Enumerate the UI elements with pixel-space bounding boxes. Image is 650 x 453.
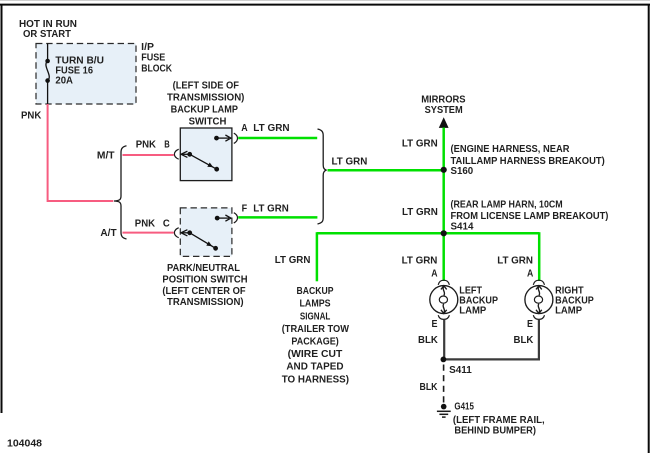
svg-text:A: A (527, 268, 533, 279)
svg-text:(WIRE CUT: (WIRE CUT (288, 349, 343, 360)
label LEFT BACKUP LAMP (459, 286, 498, 317)
arrow to mirrors system (439, 117, 449, 128)
svg-text:TO HARNESS): TO HARNESS) (282, 374, 349, 385)
connector pin B (174, 149, 178, 159)
svg-text:A: A (241, 123, 247, 134)
connector pin F (234, 213, 238, 223)
svg-text:TAILLAMP HARNESS BREAKOUT): TAILLAMP HARNESS BREAKOUT) (451, 156, 605, 167)
wire PNK from fuse to brace (48, 104, 114, 201)
svg-text:LT GRN: LT GRN (253, 123, 289, 134)
label switch title (167, 80, 244, 127)
ground G415 (437, 404, 451, 417)
label engine harness note (451, 144, 605, 167)
svg-text:LT GRN: LT GRN (497, 255, 533, 266)
svg-text:I/P: I/P (141, 42, 154, 53)
svg-text:BLK: BLK (514, 335, 535, 346)
svg-text:OR START: OR START (23, 29, 71, 40)
wire LT GRN right lamp drop (538, 232, 541, 281)
svg-text:C: C (163, 219, 170, 230)
svg-text:(LEFT SIDE OF: (LEFT SIDE OF (173, 80, 239, 91)
svg-text:E: E (432, 319, 438, 330)
wire LT GRN from A (238, 137, 317, 140)
wire LT GRN backup lamps signal drop (316, 232, 319, 281)
label F LT GRN (242, 203, 289, 214)
svg-text:BACKUP: BACKUP (297, 286, 334, 297)
switch contacts (M/T) (181, 135, 231, 172)
wire LT GRN left lamp drop (442, 233, 445, 281)
label PNK B (136, 139, 170, 150)
svg-text:LT GRN: LT GRN (332, 156, 368, 167)
svg-text:S411: S411 (449, 365, 472, 376)
wire PNK M/T (123, 154, 174, 156)
label TURN B/U FUSE 16 20A (55, 55, 104, 86)
svg-text:BACKUP LAMP: BACKUP LAMP (171, 104, 239, 115)
svg-text:LT GRN: LT GRN (253, 203, 288, 214)
svg-text:LAMPS: LAMPS (300, 299, 331, 310)
svg-text:PNK: PNK (21, 111, 42, 122)
label PNK C (135, 219, 170, 230)
svg-text:A: A (431, 268, 437, 279)
fuse TURN B/U FUSE 16 20A (45, 44, 50, 105)
svg-text:S160: S160 (451, 166, 474, 177)
svg-text:MIRRORS: MIRRORS (421, 95, 466, 106)
svg-text:TRANSMISSION): TRANSMISSION) (167, 92, 244, 103)
backup lamp switch box (180, 128, 232, 181)
connector pin C (174, 228, 178, 238)
wire LT GRN S414 horizontal (317, 232, 539, 235)
svg-text:AND TAPED: AND TAPED (286, 362, 343, 373)
svg-text:BEHIND BUMPER): BEHIND BUMPER) (454, 425, 536, 436)
svg-text:SWITCH: SWITCH (189, 116, 227, 127)
svg-text:BLOCK: BLOCK (141, 63, 172, 74)
splice S414 (441, 230, 447, 236)
label A LT GRN (241, 123, 289, 134)
svg-text:LT GRN: LT GRN (275, 255, 311, 266)
splice S160 (441, 167, 447, 173)
label backup lamps signal (282, 286, 350, 385)
label rear lamp harness note (451, 199, 609, 222)
connector left lamp pin A (438, 280, 449, 285)
svg-text:(LEFT FRAME RAIL,: (LEFT FRAME RAIL, (453, 415, 545, 426)
svg-text:B: B (164, 139, 170, 150)
svg-text:POSITION SWITCH: POSITION SWITCH (162, 274, 247, 285)
svg-text:LAMP: LAMP (555, 306, 582, 317)
connector right lamp pin A (533, 280, 544, 285)
svg-text:(REAR LAMP HARN, 10CM: (REAR LAMP HARN, 10CM (451, 199, 563, 210)
label HOT IN RUN OR START (19, 19, 77, 40)
svg-text:FROM LICENSE LAMP BREAKOUT): FROM LICENSE LAMP BREAKOUT) (451, 211, 609, 222)
svg-text:M/T: M/T (97, 151, 115, 162)
svg-text:FUSE: FUSE (141, 53, 165, 64)
svg-text:20A: 20A (55, 75, 73, 86)
wire BLK right lamp (444, 320, 539, 360)
wire LT GRN main vertical (442, 128, 445, 234)
svg-text:SIGNAL: SIGNAL (300, 311, 330, 322)
svg-text:104048: 104048 (7, 439, 42, 450)
connector pin A (234, 133, 238, 143)
wire LT GRN brace to S160 (328, 169, 444, 172)
svg-text:(TRAILER TOW: (TRAILER TOW (282, 324, 350, 335)
connector left lamp pin E (438, 315, 449, 319)
wire BLK left lamp (443, 320, 445, 360)
svg-text:F: F (242, 203, 248, 214)
wire PNK A/T (123, 232, 174, 234)
svg-text:BLK: BLK (418, 335, 439, 346)
label ground location (453, 415, 545, 436)
svg-text:LT GRN: LT GRN (402, 207, 438, 218)
connector right lamp pin E (533, 315, 544, 319)
svg-text:PNK: PNK (136, 139, 157, 150)
svg-text:A/T: A/T (100, 228, 116, 239)
brace M/T A/T split (114, 146, 127, 239)
svg-text:G415: G415 (454, 401, 474, 412)
svg-text:PARK/NEUTRAL: PARK/NEUTRAL (167, 263, 240, 274)
splice S411 (441, 357, 447, 363)
switch contacts (A/T) (181, 215, 231, 251)
svg-text:PACKAGE): PACKAGE) (291, 337, 338, 348)
right backup lamp (525, 286, 553, 314)
svg-text:E: E (527, 319, 533, 330)
I/P fuse block box (36, 44, 136, 105)
svg-text:LT GRN: LT GRN (402, 255, 438, 266)
wire LT GRN from F (238, 216, 317, 219)
label RIGHT BACKUP LAMP (555, 286, 594, 317)
wire BLK dashed to ground (443, 365, 445, 403)
svg-text:PNK: PNK (135, 219, 156, 230)
label I/P FUSE BLOCK (141, 42, 172, 74)
left backup lamp (430, 286, 458, 314)
park/neutral position switch box (180, 208, 232, 257)
svg-text:BLK: BLK (420, 382, 439, 393)
label park/neutral title (162, 263, 247, 308)
svg-text:S414: S414 (451, 222, 474, 233)
svg-text:(LEFT CENTER OF: (LEFT CENTER OF (162, 286, 245, 297)
svg-text:LAMP: LAMP (459, 306, 486, 317)
svg-text:(ENGINE HARNESS, NEAR: (ENGINE HARNESS, NEAR (451, 144, 571, 155)
svg-text:SYSTEM: SYSTEM (425, 105, 463, 116)
label MIRRORS SYSTEM (421, 95, 466, 116)
brace join A F (318, 129, 327, 224)
svg-text:TRANSMISSION): TRANSMISSION) (167, 297, 244, 308)
svg-text:LT GRN: LT GRN (402, 138, 438, 149)
